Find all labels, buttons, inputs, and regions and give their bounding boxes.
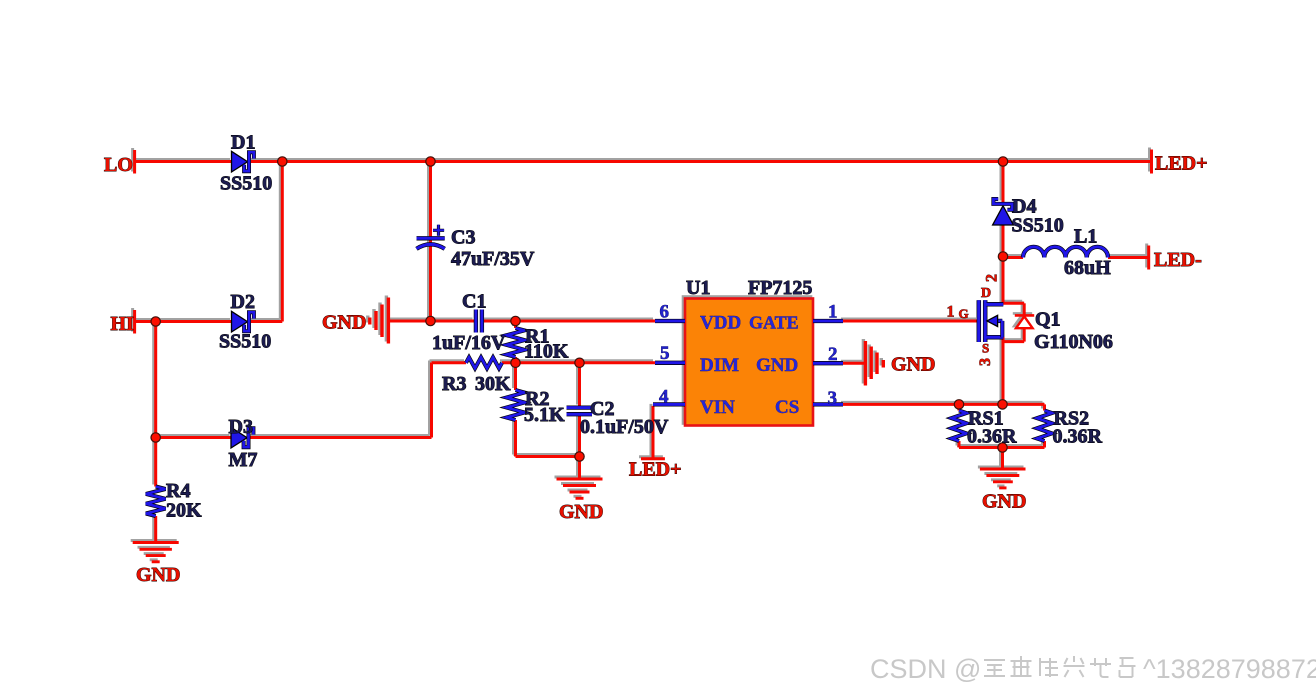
svg-text:LED+: LED+ — [629, 459, 682, 481]
wire L1 left lead — [1003, 256, 1023, 259]
pin 6 stub — [655, 319, 685, 323]
wire C2 top lead — [578, 363, 581, 407]
capacitor C2 plates — [567, 405, 593, 409]
junction — [511, 358, 520, 367]
svg-text:R3: R3 — [442, 373, 466, 395]
svg-text:D2: D2 — [231, 291, 255, 313]
svg-text:L1: L1 — [1074, 226, 1097, 248]
terminal LED+ — [1150, 150, 1153, 174]
svg-text:GND: GND — [982, 491, 1026, 513]
resistor RS1 zigzag — [952, 411, 967, 442]
svg-text:HI: HI — [111, 313, 135, 335]
pin 1 stub — [813, 319, 843, 323]
junction — [426, 157, 435, 166]
svg-text:1: 1 — [947, 304, 955, 321]
wire HI node down to D3/R4 — [154, 322, 157, 487]
wire RS2 bottom lead — [1043, 441, 1046, 448]
svg-text:LO: LO — [104, 154, 133, 176]
svg-text:0.1uF/50V: 0.1uF/50V — [580, 416, 669, 438]
svg-text:C3: C3 — [451, 227, 475, 249]
svg-text:GATE: GATE — [749, 313, 799, 333]
ground symbol at pin2 (power ground) — [865, 341, 883, 386]
wire C1 right plate to pin6 — [484, 320, 655, 323]
svg-text:110K: 110K — [524, 341, 569, 363]
svg-text:^13828798872: ^13828798872 — [1143, 654, 1316, 684]
junction — [575, 452, 584, 461]
junction — [998, 157, 1007, 166]
wire pin3 CS to RS2 — [843, 403, 1045, 406]
wire D3 cathode to R3 — [249, 436, 432, 439]
svg-text:0.36R: 0.36R — [1053, 426, 1103, 448]
pin 2 stub — [813, 361, 843, 365]
resistor R1 zigzag — [507, 328, 525, 357]
wire D2 cathode to vertical — [249, 320, 282, 323]
wire GND stub below C2 — [578, 457, 581, 479]
wire HI to D2 anode — [136, 320, 232, 323]
svg-text:GND: GND — [559, 501, 603, 523]
wire D4 top lead — [1002, 162, 1005, 203]
svg-text:30K: 30K — [475, 373, 511, 395]
capacitor C1 plates — [474, 310, 478, 333]
svg-text:4: 4 — [659, 387, 669, 408]
diode D1 triangle — [232, 151, 248, 172]
svg-text:CS: CS — [775, 397, 799, 418]
svg-text:1uF/16V: 1uF/16V — [432, 332, 506, 354]
junction — [151, 433, 160, 442]
wire R2 bottom to C2 bottom — [516, 455, 580, 458]
svg-text:CSDN @: CSDN @ — [870, 654, 981, 684]
svg-text:SS510: SS510 — [219, 331, 271, 353]
svg-text:G: G — [959, 306, 969, 321]
svg-text:2: 2 — [828, 344, 838, 365]
ground symbol below RS1/RS2 (earth) — [980, 469, 1026, 488]
diode D3 triangle — [231, 427, 247, 448]
svg-text:5.1K: 5.1K — [524, 404, 565, 426]
wire R2 top lead — [514, 363, 517, 390]
ground symbol below R4 (earth) — [133, 543, 179, 562]
svg-text:U1: U1 — [686, 277, 710, 299]
svg-text:5: 5 — [660, 343, 670, 364]
resistor R3 zigzag — [466, 357, 502, 368]
pin 5 stub — [655, 361, 685, 365]
ground symbol below C2 (earth) — [557, 479, 603, 498]
svg-text:D3: D3 — [229, 416, 253, 438]
svg-text:2: 2 — [984, 274, 1001, 282]
resistor RS2 zigzag — [1037, 411, 1052, 442]
wire RS1 top lead — [958, 404, 961, 410]
svg-text:D1: D1 — [231, 132, 255, 154]
wire GND stub below RS — [1001, 448, 1004, 469]
wire DIM row R3 right to pin5 — [502, 361, 655, 364]
junction — [575, 358, 584, 367]
capacitor C3 plus sign — [433, 225, 444, 236]
wire R2 bottom lead — [514, 420, 517, 457]
wire L1 right lead to LED- — [1108, 256, 1148, 259]
terminal LO — [133, 150, 136, 174]
svg-text:G110N06: G110N06 — [1034, 331, 1113, 353]
svg-text:VIN: VIN — [700, 397, 735, 418]
wire top rail D1 cathode to LED+ — [249, 160, 1151, 163]
svg-text:68uH: 68uH — [1064, 257, 1111, 279]
svg-text:47uF/35V: 47uF/35V — [451, 248, 535, 270]
capacitor C3 plates (polarized) — [417, 236, 445, 240]
Q1 body diode triangle — [1016, 316, 1033, 328]
wire C2 bottom lead — [578, 415, 581, 457]
wire Q1 body diode loop top — [1003, 302, 1024, 305]
svg-text:LED-: LED- — [1154, 249, 1202, 271]
svg-text:1: 1 — [828, 302, 838, 323]
wire vertical C3 branch — [429, 162, 432, 322]
Q1 arrow — [987, 315, 998, 326]
junction — [511, 316, 520, 325]
svg-text:3: 3 — [828, 388, 838, 409]
wire vertical node D1/D2 cathodes — [281, 162, 284, 322]
svg-text:DIM: DIM — [700, 355, 739, 376]
diode D3 cathode bar (schottky) — [244, 428, 254, 447]
resistor R2 zigzag — [507, 390, 525, 420]
wire R3 left lead — [432, 361, 467, 364]
wire vertical D3 to R3 left — [430, 363, 433, 438]
svg-text:GND: GND — [891, 354, 935, 376]
wire GND to C1 left plate — [390, 320, 475, 323]
svg-text:FP7125: FP7125 — [748, 277, 812, 299]
diode D4 cathode bar (schottky) — [993, 199, 1012, 210]
svg-text:0.36R: 0.36R — [967, 426, 1017, 448]
svg-text:6: 6 — [660, 302, 670, 323]
junction — [998, 252, 1007, 261]
svg-text:M7: M7 — [229, 449, 258, 471]
junction — [998, 443, 1007, 452]
wire gate pin1 to Q1 — [843, 320, 978, 323]
wire D4 bottom lead — [1002, 225, 1005, 257]
wire VIN pin4 down to LED+ — [652, 406, 655, 458]
pin 3 stub — [813, 402, 843, 406]
wire RS2 top lead — [1043, 404, 1046, 410]
svg-text:SS510: SS510 — [1012, 215, 1064, 237]
diode D1 cathode bar (schottky) — [244, 152, 254, 171]
pin 4 stub — [653, 402, 685, 406]
junction — [151, 317, 160, 326]
wire Q1 drain — [1002, 257, 1005, 305]
svg-text:SS510: SS510 — [220, 173, 272, 195]
svg-text:D: D — [981, 286, 991, 301]
diode D2 cathode bar (schottky) — [244, 312, 254, 331]
op chip U1 body — [685, 299, 813, 426]
terminal HI — [133, 310, 136, 334]
watermark CJK glyphs — [984, 656, 1136, 677]
wire RS bottom row — [959, 446, 1045, 449]
svg-text:S: S — [982, 341, 989, 356]
junction — [278, 157, 287, 166]
Q1 body diode bar — [1015, 314, 1034, 317]
svg-text:C1: C1 — [462, 291, 486, 313]
svg-text:GND: GND — [756, 355, 798, 376]
svg-text:Q1: Q1 — [1035, 309, 1061, 331]
svg-text:VDD: VDD — [700, 313, 741, 334]
terminal LED- — [1147, 246, 1150, 270]
wire R4 to ground — [154, 516, 157, 542]
wire RS1 bottom lead — [958, 441, 961, 448]
wire Q1 body diode loop bottom — [1023, 328, 1026, 342]
svg-text:GND: GND — [136, 564, 180, 586]
svg-text:3: 3 — [977, 358, 994, 366]
terminal LED+ bottom — [641, 457, 665, 460]
wire R1 top lead — [514, 321, 517, 328]
diode D2 triangle — [232, 311, 248, 332]
resistor R4 zigzag — [146, 487, 166, 517]
transistor Q1 MOSFET symbol — [977, 300, 982, 342]
wire R1 bottom lead — [514, 357, 517, 363]
junction — [998, 400, 1007, 409]
svg-text:LED+: LED+ — [1155, 153, 1208, 175]
svg-text:GND: GND — [322, 312, 366, 334]
svg-text:20K: 20K — [166, 500, 202, 522]
wire LO to D1 anode — [136, 160, 232, 163]
ground symbol near C1 (power ground) — [370, 298, 389, 344]
wire pin2 to GND symbol — [843, 362, 866, 365]
inductor L1 — [1023, 247, 1108, 258]
wire Q1 source down to RS — [1002, 337, 1005, 404]
junction — [954, 400, 963, 409]
junction — [426, 316, 435, 325]
diode D4 triangle — [993, 206, 1014, 225]
wire D3 anode from HI node — [156, 436, 232, 439]
